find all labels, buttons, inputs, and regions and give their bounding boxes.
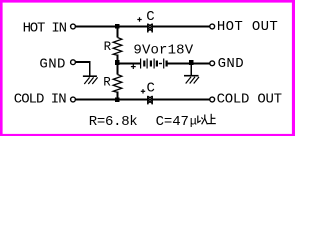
svg-text:R=6.8k: R=6.8k [89,114,138,130]
svg-text:C=47: C=47 [156,114,189,130]
svg-text:C: C [147,81,155,97]
svg-text:COLD IN: COLD IN [14,92,66,108]
svg-text:GND: GND [218,56,244,72]
svg-text:GND: GND [39,56,65,72]
svg-text:C: C [146,9,154,25]
svg-text:R: R [103,75,111,89]
svg-text:R: R [104,40,112,54]
svg-text:COLD OUT: COLD OUT [217,92,282,108]
svg-text:HOT IN: HOT IN [23,20,67,36]
svg-text:μ: μ [190,115,197,129]
svg-text:HOT OUT: HOT OUT [217,19,278,35]
svg-text:9Vor18V: 9Vor18V [133,42,193,58]
